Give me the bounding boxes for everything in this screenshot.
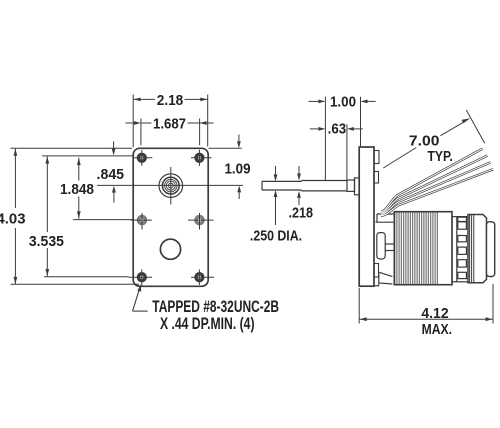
dimension .63 (310, 124, 363, 179)
svg-text:MAX.: MAX. (422, 321, 452, 338)
dimension 1.09 (209, 135, 242, 200)
tapped hole top-left (134, 150, 152, 166)
dimension 7.00 TYP leader (383, 110, 484, 168)
plate back bump upper-mid (374, 172, 379, 184)
plate back bump bottom (374, 264, 379, 278)
side plate (359, 147, 374, 286)
tapped hole top-right (191, 150, 212, 166)
svg-text:3.535: 3.535 (29, 233, 65, 250)
shaft collar (347, 180, 355, 191)
svg-text:4.03: 4.03 (0, 210, 26, 227)
fins (396, 213, 437, 285)
dimension 1.848 (77, 158, 81, 219)
svg-text:.218: .218 (289, 204, 314, 221)
dimension 3.535 (44, 156, 129, 277)
output shaft full .250 section (302, 181, 348, 191)
gearbox housing (374, 214, 394, 286)
motor drum with cooling fins (394, 212, 452, 285)
svg-text:X .44 DP.MIN. (4): X .44 DP.MIN. (4) (160, 315, 255, 333)
dimension 2.18 (133, 95, 208, 148)
dimension 1.687 (126, 119, 214, 146)
commutator section with rungs (452, 217, 468, 282)
output shaft thin section (.218 flat) (262, 181, 302, 190)
dimension 4.03 (11, 148, 140, 284)
middle-row extension line (73, 219, 133, 221)
motor wires (381, 149, 493, 216)
tapped hole middle-right (gray) (188, 213, 214, 230)
tapped hole bottom-left (129, 270, 153, 287)
svg-text:TAPPED #8-32UNC-2B: TAPPED #8-32UNC-2B (152, 298, 279, 316)
tapped hole bottom-right (191, 270, 214, 286)
svg-text:.250 DIA.: .250 DIA. (250, 227, 302, 244)
leader to tapped hole note (133, 284, 148, 311)
boss horizontal centerline (also .845 and 1.09 extension) (97, 184, 243, 186)
svg-text:4.12: 4.12 (421, 305, 448, 322)
svg-text:1.00: 1.00 (330, 94, 356, 111)
dimension .845 (112, 141, 116, 202)
svg-text:TYP.: TYP. (428, 148, 453, 165)
boss vertical centerline (170, 167, 172, 205)
svg-text:1.848: 1.848 (60, 181, 94, 198)
dimension .250 arrows (274, 166, 278, 225)
shaft boss concentric circles (159, 174, 183, 198)
hub on plate front (355, 178, 360, 195)
svg-text:.845: .845 (97, 166, 125, 183)
end bell housing (468, 215, 487, 283)
large through hole (160, 239, 180, 259)
svg-text:1.687: 1.687 (153, 116, 186, 133)
svg-text:2.18: 2.18 (157, 92, 184, 109)
dimension 1.00 (309, 97, 376, 181)
rear end cap disc (487, 222, 495, 277)
dimension 4.12 MAX (359, 284, 493, 324)
hole-row extension line (top) (42, 155, 133, 157)
plate back bump top (374, 151, 379, 164)
dimension .218 arrows (297, 166, 301, 205)
svg-text:1.09: 1.09 (225, 160, 251, 177)
tapped hole middle-left (gray) (131, 213, 152, 230)
mounting plate outline (133, 148, 208, 286)
svg-text:.63: .63 (328, 121, 347, 138)
